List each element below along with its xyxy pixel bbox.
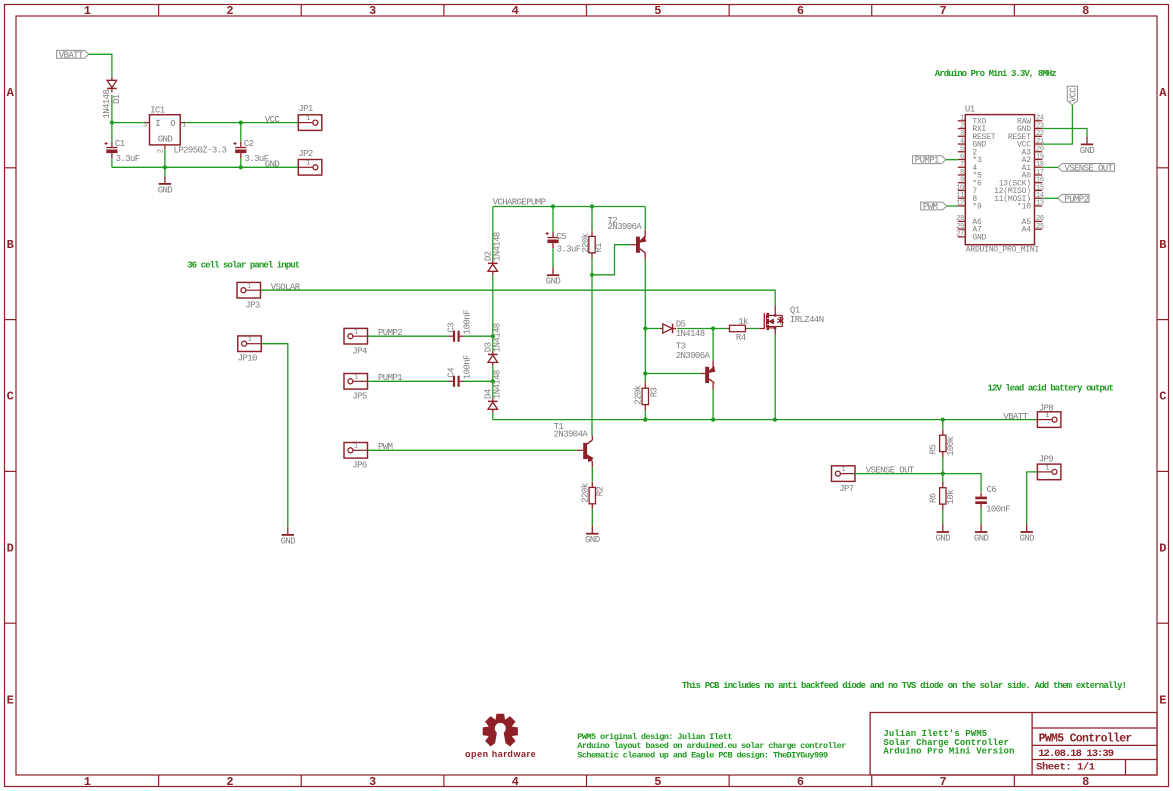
svg-text:This PCB includes no anti back: This PCB includes no anti backfeed diode… <box>682 681 1126 691</box>
svg-text:C4: C4 <box>446 368 456 378</box>
svg-text:VBATT: VBATT <box>59 50 84 60</box>
svg-text:GND: GND <box>281 536 296 546</box>
svg-text:100nF: 100nF <box>462 355 472 379</box>
svg-text:PWM5 Controller: PWM5 Controller <box>1039 732 1133 745</box>
svg-text:PWM: PWM <box>923 202 938 212</box>
resistor R2 220k <box>591 482 593 488</box>
svg-text:VCC: VCC <box>1069 87 1079 103</box>
node D5 junction <box>643 326 647 330</box>
wire C4 to diode chain <box>464 380 493 382</box>
wire VSENSE node to C6 <box>943 474 981 492</box>
svg-text:C2: C2 <box>244 139 254 149</box>
wire to D5 <box>645 328 660 330</box>
wire C6 to ground <box>980 508 982 524</box>
wire D5 to R4 node <box>677 328 713 330</box>
connector JP7 <box>832 466 856 482</box>
svg-text:1: 1 <box>842 466 846 474</box>
svg-text:GND: GND <box>585 535 600 545</box>
wire IC1 ground stub <box>164 167 166 176</box>
wire VSOLAR to Q1 drain <box>261 290 776 305</box>
wire C1 branch <box>111 123 113 142</box>
svg-text:IC1: IC1 <box>150 105 165 115</box>
wire pin 14 to PUMP2 <box>1042 197 1058 199</box>
node R1 junction <box>590 204 594 208</box>
svg-text:R5: R5 <box>928 445 938 455</box>
svg-text:3.3uF: 3.3uF <box>557 245 581 255</box>
svg-text:U1: U1 <box>965 105 975 115</box>
svg-text:C5: C5 <box>556 232 566 242</box>
node C5 junction <box>551 204 555 208</box>
svg-text:4: 4 <box>512 4 519 18</box>
svg-text:JP4: JP4 <box>352 347 367 357</box>
wire battery rail <box>493 419 1038 421</box>
diode D5 1N4148 <box>660 328 663 330</box>
svg-text:Arduino Pro Mini Version: Arduino Pro Mini Version <box>883 746 1014 756</box>
wire JP9 to ground <box>1027 472 1038 524</box>
svg-text:5: 5 <box>654 4 661 18</box>
svg-text:JP9: JP9 <box>1039 454 1054 464</box>
resistor R1 220k <box>591 231 593 237</box>
svg-text:A: A <box>1159 86 1167 100</box>
wire R1 top <box>591 207 593 231</box>
svg-text:1k: 1k <box>738 317 748 327</box>
svg-text:R2: R2 <box>595 486 605 496</box>
svg-text:PUMP2: PUMP2 <box>1064 194 1088 204</box>
wire to IC1 pin3 <box>112 122 145 124</box>
wire R1 bottom to T1 collector line <box>591 258 593 275</box>
svg-text:100nF: 100nF <box>462 310 472 334</box>
wire R2 to ground <box>591 509 593 525</box>
svg-text:5: 5 <box>654 775 661 789</box>
net flag PWM <box>921 202 947 210</box>
svg-text:B: B <box>1159 238 1166 252</box>
wire ground rail to JP2 <box>112 166 298 168</box>
svg-text:E: E <box>1159 693 1166 707</box>
ground symbol below IC1 <box>164 176 166 184</box>
svg-text:C1: C1 <box>115 139 125 149</box>
svg-text:I: I <box>155 119 160 129</box>
wire PWM to pin 12 <box>947 205 958 207</box>
wire T1 collector from R1 node <box>591 275 593 436</box>
capacitor C3 100nF <box>449 335 453 337</box>
svg-text:36 cell solar panel input: 36 cell solar panel input <box>187 261 300 271</box>
connector JP4 <box>344 328 368 344</box>
svg-text:R6: R6 <box>928 493 938 503</box>
ground symbol below JP10 <box>287 527 289 535</box>
diode D2 1N4148 <box>492 260 494 263</box>
svg-text:1: 1 <box>354 374 358 382</box>
svg-text:GND: GND <box>158 185 173 195</box>
wire PUMP1 to pin 6 <box>946 159 958 161</box>
svg-text:13: 13 <box>1036 200 1044 208</box>
resistor R5 100k <box>942 430 944 436</box>
svg-text:D1: D1 <box>112 94 122 104</box>
svg-text:GND: GND <box>1019 533 1034 543</box>
svg-text:2: 2 <box>226 4 233 18</box>
svg-text:6: 6 <box>797 4 804 18</box>
svg-text:GND: GND <box>1080 146 1095 156</box>
svg-text:1N4148: 1N4148 <box>493 232 503 261</box>
svg-text:O: O <box>170 119 175 129</box>
svg-text:1: 1 <box>354 329 358 337</box>
node IC1 ground junction <box>163 165 167 169</box>
svg-text:220k: 220k <box>634 385 644 404</box>
wire VBATT to D1 <box>89 54 112 77</box>
svg-text:*9: *9 <box>972 203 982 212</box>
svg-text:R1: R1 <box>594 243 604 253</box>
wire VCC flag to pin 21 <box>1042 105 1072 144</box>
svg-text:1: 1 <box>248 336 252 344</box>
svg-text:25: 25 <box>1036 223 1044 231</box>
wire R5 bottom <box>942 457 944 474</box>
svg-text:220k: 220k <box>581 483 591 502</box>
svg-text:3: 3 <box>143 122 147 130</box>
svg-text:8: 8 <box>1082 775 1089 789</box>
wire R6 bottom <box>942 510 944 524</box>
svg-text:1: 1 <box>306 160 310 168</box>
wire JP10 to ground <box>261 344 288 527</box>
wire C2 to ground rail <box>240 158 242 167</box>
IC U1 ARDUINO_PRO_MINI <box>965 115 1034 245</box>
wire JP4 to C3 <box>368 335 449 337</box>
wire C5 top <box>552 207 554 232</box>
svg-text:A: A <box>7 86 15 100</box>
svg-text:10k: 10k <box>946 490 956 505</box>
svg-text:B: B <box>7 238 14 252</box>
ground symbol below R6 <box>942 524 944 532</box>
svg-text:1: 1 <box>354 443 358 451</box>
wire JP7 to R5 R6 node <box>855 473 943 475</box>
svg-text:1N4148: 1N4148 <box>676 329 705 339</box>
svg-text:ARDUINO_PRO_MINI: ARDUINO_PRO_MINI <box>966 245 1039 254</box>
wire D3 to C4 node <box>492 366 494 382</box>
svg-text:R3: R3 <box>649 387 659 397</box>
svg-text:3: 3 <box>369 775 376 789</box>
node D3 D4 junction <box>491 379 495 383</box>
wire C2 branch <box>240 123 242 142</box>
wire C3 to diode chain <box>464 335 493 337</box>
svg-text:27: 27 <box>956 231 964 239</box>
voltage regulator IC1 LP2950Z-3.3 <box>150 115 181 145</box>
wire pin 18 to VSENSE_OUT <box>1042 166 1058 168</box>
svg-text:1: 1 <box>1045 412 1049 420</box>
wire R3 bottom to rail <box>644 410 646 420</box>
svg-text:JP10: JP10 <box>238 354 257 364</box>
svg-text:*10: *10 <box>1017 203 1031 212</box>
svg-text:VSOLAR: VSOLAR <box>271 283 301 293</box>
svg-text:D5: D5 <box>676 319 686 329</box>
svg-text:1: 1 <box>84 775 91 789</box>
svg-text:3: 3 <box>369 4 376 18</box>
transistor T2 2N3906A <box>636 237 640 253</box>
capacitor C6 100nF <box>980 493 982 497</box>
svg-text:D: D <box>1159 542 1166 556</box>
ground symbol below JP9 <box>1026 524 1028 532</box>
svg-text:PUMP1: PUMP1 <box>915 156 939 166</box>
wire R5 top <box>942 420 944 430</box>
connector JP10 <box>238 336 261 352</box>
svg-text:1N4148: 1N4148 <box>493 370 503 399</box>
svg-text:C: C <box>1159 390 1166 404</box>
wire VCHARGEPUMP rail <box>493 206 646 208</box>
wire T1 base lead <box>577 449 583 451</box>
svg-text:open hardware: open hardware <box>465 749 536 759</box>
wire T3 collector to rail <box>712 390 714 420</box>
wire Q1 drain from VSOLAR <box>774 305 776 310</box>
wire R6 top <box>942 474 944 485</box>
svg-text:1: 1 <box>1045 464 1049 472</box>
svg-text:220k: 220k <box>581 233 591 252</box>
svg-text:IRLZ44N: IRLZ44N <box>790 315 824 325</box>
wire T3 base <box>645 373 701 375</box>
svg-text:VCC: VCC <box>265 115 281 125</box>
svg-text:GND: GND <box>265 160 280 170</box>
node VSENSE junction <box>941 472 945 476</box>
resistor R6 10k <box>942 482 944 488</box>
node C2 ground junction <box>239 165 243 169</box>
svg-text:1N4148: 1N4148 <box>102 90 112 119</box>
wire chain top <box>492 207 494 261</box>
svg-text:C3: C3 <box>446 323 456 333</box>
node D2 D3 junction <box>491 334 495 338</box>
node R3 junction <box>643 371 647 375</box>
wire IC1 GND pin <box>164 145 166 150</box>
net flag VBATT <box>57 50 89 58</box>
wire T2 collector down <box>644 259 646 328</box>
svg-text:JP5: JP5 <box>352 392 367 402</box>
svg-text:GND: GND <box>972 233 986 242</box>
wire C4 node to D4 <box>492 381 494 398</box>
capacitor C2 3.3uF <box>240 142 242 147</box>
wire C3 node to D3 <box>492 336 494 351</box>
node T3 emitter junction <box>711 326 715 330</box>
net flag PUMP1 <box>913 156 946 164</box>
svg-text:Schematic cleaned up and Eagle: Schematic cleaned up and Eagle PCB desig… <box>577 751 828 761</box>
svg-text:2: 2 <box>226 775 233 789</box>
wire VCHARGEPUMP to T2 emitter <box>644 207 646 230</box>
resistor R3 220k <box>644 383 646 389</box>
svg-text:JP7: JP7 <box>839 484 854 494</box>
svg-text:GND: GND <box>158 135 173 145</box>
ground symbol below C5 <box>552 267 554 275</box>
ground symbol below R2 <box>591 526 593 534</box>
svg-text:8: 8 <box>1082 4 1089 18</box>
svg-text:C: C <box>7 390 14 404</box>
capacitor C4 100nF <box>449 380 453 382</box>
svg-text:C6: C6 <box>987 485 997 495</box>
wire T1 emitter to R2 <box>591 467 593 481</box>
svg-text:GND: GND <box>936 533 951 543</box>
svg-text:7: 7 <box>939 4 946 18</box>
capacitor C1 3.3uF <box>111 142 113 147</box>
wire to R4 <box>713 328 727 330</box>
title block <box>870 713 1157 776</box>
svg-text:12V lead acid battery output: 12V lead acid battery output <box>988 383 1114 393</box>
svg-text:3.3uF: 3.3uF <box>116 154 140 164</box>
wire D1 to IC1 input <box>111 95 113 123</box>
wire JP6 to T1 base <box>368 449 577 451</box>
svg-text:1: 1 <box>84 4 91 18</box>
connector JP3 <box>237 282 261 298</box>
connector JP5 <box>344 374 368 390</box>
svg-text:GND: GND <box>546 277 561 287</box>
svg-text:2N3904A: 2N3904A <box>554 429 589 439</box>
svg-text:D: D <box>7 542 14 556</box>
wire R4 to Q1 gate <box>748 328 760 330</box>
svg-text:2N3906A: 2N3906A <box>608 222 643 232</box>
wire Q1 source to battery rail <box>774 335 776 420</box>
svg-text:JP1: JP1 <box>298 104 313 114</box>
node R5 junction <box>941 418 945 422</box>
net flag VSENSE_OUT <box>1058 164 1115 172</box>
wire T3 emitter <box>712 329 714 361</box>
capacitor C5 3.3uF <box>552 232 554 237</box>
diode D1 1N4148 <box>111 77 113 80</box>
resistor R4 1k <box>727 328 729 330</box>
ground symbol at U1 <box>1086 136 1088 144</box>
open hardware logo <box>488 719 514 745</box>
node R3 rail junction <box>643 418 647 422</box>
svg-text:R4: R4 <box>736 333 746 343</box>
svg-text:E: E <box>7 693 14 707</box>
wire jog to T2 base <box>592 245 630 275</box>
svg-text:12.08.18 13:39: 12.08.18 13:39 <box>1038 748 1114 760</box>
node T3 collector junction <box>711 418 715 422</box>
wire IC1 output to JP1 <box>180 122 185 124</box>
supply flag VCC <box>1067 86 1077 105</box>
svg-text:1: 1 <box>247 283 251 291</box>
wire D4 to battery rail <box>492 413 494 420</box>
diode D3 1N4148 <box>492 351 494 354</box>
svg-text:VBATT: VBATT <box>1003 412 1028 422</box>
wire D5 node to R3 <box>644 329 646 374</box>
svg-text:VSENSE_OUT: VSENSE_OUT <box>1064 163 1113 173</box>
svg-text:2N3906A: 2N3906A <box>676 351 711 361</box>
svg-text:1N4148: 1N4148 <box>493 323 503 352</box>
svg-text:A4: A4 <box>1022 226 1032 235</box>
wire C5 to ground <box>552 248 554 267</box>
net flag PUMP2 <box>1058 194 1089 202</box>
wire JP5 to C4 <box>368 380 449 382</box>
wire R3 top <box>644 374 646 383</box>
svg-text:Arduino Pro Mini 3.3V, 8MHz: Arduino Pro Mini 3.3V, 8MHz <box>935 69 1057 79</box>
svg-text:100k: 100k <box>946 436 956 455</box>
wire pin 23 to ground <box>1042 129 1087 137</box>
svg-text:4: 4 <box>512 775 519 789</box>
diode D4 1N4148 <box>492 398 494 401</box>
svg-text:LP2950Z-3.3: LP2950Z-3.3 <box>174 146 227 156</box>
node Q1 source junction <box>773 418 777 422</box>
wire D2 to C3 node <box>492 275 494 337</box>
svg-text:GND: GND <box>974 533 989 543</box>
connector JP6 <box>344 443 368 459</box>
svg-text:JP3: JP3 <box>245 301 260 311</box>
svg-text:Sheet: 1/1: Sheet: 1/1 <box>1036 762 1095 774</box>
svg-text:7: 7 <box>939 775 946 789</box>
wire C1 to ground rail <box>111 158 113 167</box>
svg-text:JP2: JP2 <box>298 149 313 159</box>
node VCC junction at C2 <box>239 121 243 125</box>
node VIN junction <box>110 121 114 125</box>
svg-text:1: 1 <box>306 115 310 123</box>
svg-text:100nF: 100nF <box>986 505 1010 515</box>
node R1 T2 base junction <box>590 273 594 277</box>
svg-text:JP6: JP6 <box>352 461 367 471</box>
ground symbol below C6 <box>980 524 982 532</box>
svg-text:6: 6 <box>797 775 804 789</box>
